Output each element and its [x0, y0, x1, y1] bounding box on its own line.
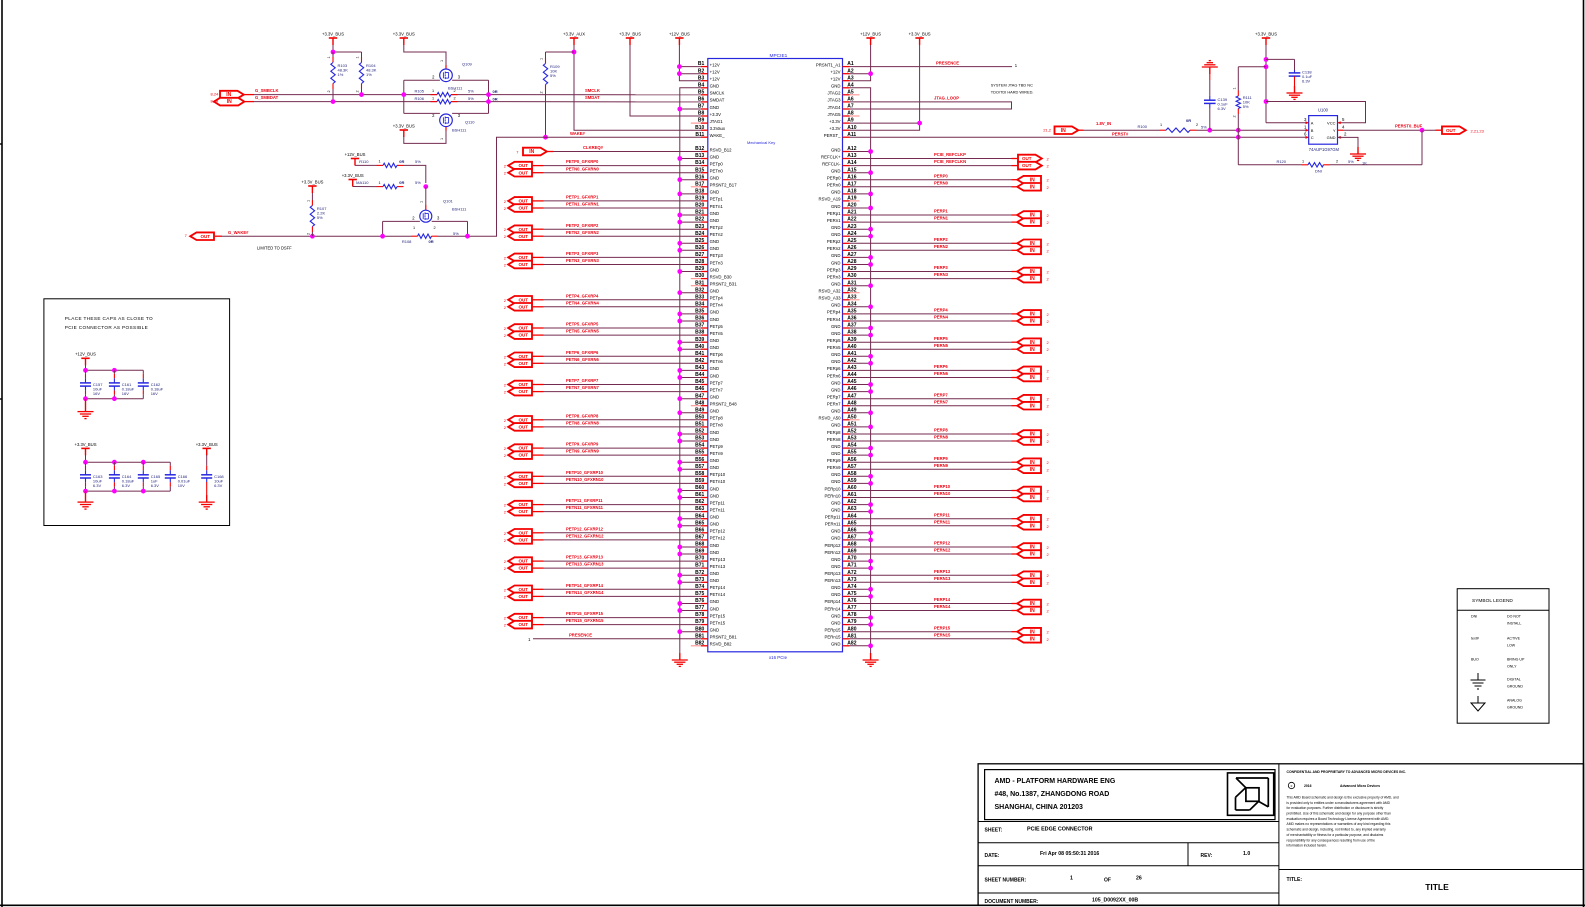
sheet border right	[1583, 0, 1585, 907]
svg-text:OUT: OUT	[518, 326, 528, 331]
svg-text:5%: 5%	[317, 215, 323, 220]
svg-text:RSVD_A33: RSVD_A33	[819, 296, 842, 301]
svg-text:PCIE_REFCLKP: PCIE_REFCLKP	[934, 152, 966, 157]
port IN PERN11	[1017, 522, 1041, 530]
svg-text:PERP0: PERP0	[934, 173, 948, 178]
svg-text:21,2: 21,2	[1043, 127, 1052, 132]
svg-text:GND: GND	[831, 324, 841, 329]
port OUT PETP4_GFXRP4	[508, 296, 532, 304]
svg-text:OUT: OUT	[518, 304, 528, 309]
svg-text:information included herein.: information included herein.	[1287, 844, 1328, 848]
svg-text:Fri Apr 08 05:50:31 2016: Fri Apr 08 05:50:31 2016	[1040, 851, 1099, 857]
pin A47 PERp7	[827, 393, 857, 399]
wire 1.8V_IN to R100	[1077, 129, 1083, 131]
svg-text:PERn0: PERn0	[827, 183, 841, 188]
pin A72 PERp13	[824, 570, 856, 576]
svg-text:OUT: OUT	[518, 615, 528, 620]
svg-text:GND: GND	[831, 282, 841, 287]
pin A79 GND	[831, 619, 857, 625]
svg-text:+3.3V_BUS: +3.3V_BUS	[393, 123, 415, 128]
svg-text:1: 1	[1233, 87, 1237, 89]
svg-text:PRSNT1_A1: PRSNT1_A1	[816, 62, 841, 67]
svg-text:PERp8: PERp8	[827, 430, 841, 435]
pin B25 GND	[695, 238, 719, 244]
pin B14 PETp0	[695, 160, 723, 166]
svg-text:GND: GND	[710, 409, 720, 414]
svg-text:VCC: VCC	[1327, 120, 1336, 125]
svg-text:JTAG1: JTAG1	[710, 119, 724, 124]
svg-text:0R: 0R	[1186, 118, 1191, 123]
ground (C138)	[1294, 86, 1296, 93]
pin A58 GND	[831, 471, 857, 477]
pin A60 PERp10	[824, 485, 856, 491]
pin B37 PETp5	[695, 323, 723, 329]
wire PCIE_REFCLKN from A14	[850, 165, 1012, 167]
svg-text:1%: 1%	[366, 72, 372, 77]
svg-text:This AMD Board schematic and d: This AMD Board schematic and design is t…	[1287, 796, 1399, 800]
svg-text:OF: OF	[1104, 878, 1111, 884]
wire flag to Q109 pin1	[404, 45, 446, 65]
legend digital ground symbol	[1477, 673, 1479, 680]
wire PETP13_GFXRP13 to B70	[533, 560, 544, 562]
pin B10 3.3Vaux	[695, 125, 726, 131]
port IN PERN10	[1017, 494, 1041, 502]
svg-text:GND: GND	[710, 317, 720, 322]
wire R104 to SMBCLK	[361, 89, 363, 95]
pin A69 PERn12	[824, 549, 856, 555]
pin B26 GND	[695, 245, 719, 251]
svg-text:IN: IN	[1030, 347, 1035, 353]
svg-text:PETP11_GFXRP11: PETP11_GFXRP11	[566, 498, 603, 503]
svg-text:OUT: OUT	[518, 587, 528, 592]
svg-text:GND: GND	[831, 642, 841, 647]
pin B30 RSVD_B30	[691, 273, 732, 279]
wire PETN3_GFXRN3 to B28	[533, 264, 544, 266]
port OUT PETP5_GFXRP5	[508, 324, 532, 332]
svg-text:PERN1: PERN1	[934, 216, 949, 221]
svg-text:PETN11_GFXRN11: PETN11_GFXRN11	[566, 505, 604, 510]
svg-text:GND: GND	[831, 472, 841, 477]
svg-text:+3.3V_BUS: +3.3V_BUS	[75, 442, 97, 447]
port OUT PETP10_GFXRP10	[508, 473, 532, 481]
wire PETP11_GFXRP11 to B62	[533, 504, 544, 506]
pin B40 GND	[695, 344, 719, 350]
pin A33 RSVD_A33	[819, 294, 860, 300]
svg-text:PRSNT2_B48: PRSNT2_B48	[710, 402, 738, 407]
svg-text:PETn15: PETn15	[710, 620, 726, 625]
svg-text:PERp6: PERp6	[827, 366, 841, 371]
pin A46 GND	[831, 386, 857, 392]
port IN CLKREQ#	[523, 148, 547, 156]
svg-text:PETN2_GFXRN2: PETN2_GFXRN2	[566, 230, 599, 235]
pin B82 RSVD_B82	[691, 640, 732, 646]
resistor R109 10K (WAKE# pullup)	[545, 58, 547, 64]
pin B62 PETp11	[695, 499, 725, 505]
svg-text:PETn5: PETn5	[710, 331, 724, 336]
junction R111/B line	[1236, 128, 1241, 133]
pin B20 PETn1	[695, 203, 723, 209]
svg-text:PETP0_GFXRP0: PETP0_GFXRP0	[566, 159, 599, 164]
wire PETP5_GFXRP5 to B37	[533, 327, 544, 329]
svg-text:PETP9_GFXRP9: PETP9_GFXRP9	[566, 442, 599, 447]
pin B47 GND	[695, 393, 719, 399]
wire R111 branch	[1237, 67, 1239, 91]
svg-text:GND: GND	[710, 458, 720, 463]
wire PRESENCE from A1	[850, 66, 1013, 68]
pin B28 PETn3	[695, 259, 723, 265]
svg-text:PERN14: PERN14	[934, 604, 951, 609]
U100 pin 6 C	[1306, 136, 1309, 139]
pin B56 GND	[695, 457, 719, 463]
svg-text:+3.3V_BUS: +3.3V_BUS	[322, 31, 344, 36]
junction gate node	[423, 184, 428, 189]
pin A19 RSVD_A19	[819, 196, 860, 202]
junction	[112, 368, 117, 373]
junction	[141, 489, 146, 494]
svg-text:5%: 5%	[415, 159, 421, 164]
port OUT PETP11_GFXRP11	[508, 501, 532, 509]
svg-text:+12V: +12V	[710, 77, 720, 82]
junction R103/SMBDAT	[331, 99, 336, 104]
svg-text:PERn9: PERn9	[827, 465, 841, 470]
svg-text:PETn2: PETn2	[710, 232, 724, 237]
svg-text:ANALOG: ANALOG	[1507, 699, 1522, 703]
svg-text:5%: 5%	[1201, 125, 1207, 130]
svg-text:PERN10: PERN10	[934, 491, 951, 496]
svg-text:R106: R106	[414, 96, 424, 101]
port IN PERN14	[1017, 607, 1041, 615]
svg-text:PERP5: PERP5	[934, 336, 948, 341]
pin B72 GND	[695, 570, 719, 576]
ground (A side bus)	[870, 653, 872, 660]
svg-text:IN: IN	[1030, 403, 1035, 409]
svg-text:GND: GND	[710, 154, 720, 159]
junction	[112, 489, 117, 494]
svg-text:G_WAKE#: G_WAKE#	[228, 230, 249, 235]
svg-text:2: 2	[327, 90, 331, 92]
svg-text:TDO/TDI HARD WIRED.: TDO/TDI HARD WIRED.	[991, 90, 1034, 95]
pin A18 GND	[831, 189, 857, 195]
svg-text:PERn5: PERn5	[827, 345, 841, 350]
svg-text:PERp2: PERp2	[827, 239, 841, 244]
pin B19 PETp1	[695, 196, 723, 202]
svg-text:PERn10: PERn10	[824, 493, 841, 498]
svg-text:1K: 1K	[1362, 160, 1367, 165]
pin B57 GND	[695, 464, 719, 470]
svg-text:REFCLK-: REFCLK-	[822, 161, 841, 166]
svg-text:PETP12_GFXRP12: PETP12_GFXRP12	[566, 526, 604, 531]
svg-text:16V: 16V	[93, 391, 100, 396]
svg-text:0R: 0R	[493, 96, 498, 101]
wire to R111	[1238, 66, 1266, 68]
pin A55 GND	[831, 450, 857, 456]
svg-text:DNI: DNI	[1471, 615, 1477, 619]
junction	[141, 460, 146, 465]
pin A45 GND	[831, 379, 857, 385]
port OUT PETN5_GFXRN5	[508, 331, 532, 339]
svg-text:OUT: OUT	[518, 502, 528, 507]
svg-text:OUT: OUT	[518, 481, 528, 486]
svg-text:PETN12_GFXRN12: PETN12_GFXRN12	[566, 534, 604, 539]
svg-text:GND: GND	[831, 169, 841, 174]
svg-text:+3.3V_BUS: +3.3V_BUS	[619, 31, 641, 36]
svg-text:ONLY: ONLY	[1507, 665, 1517, 669]
pin A22 PERn1	[827, 217, 857, 223]
wire PETN2_GFXRN2 to B24	[533, 235, 544, 237]
wire PERP10 from A60	[850, 490, 1012, 492]
wire flag to Q110 pin1	[404, 131, 446, 144]
svg-text:PERST0_BUF: PERST0_BUF	[1395, 124, 1423, 129]
pin A15 GND	[831, 167, 857, 173]
port IN PERP12	[1017, 543, 1041, 551]
svg-text:GND: GND	[710, 599, 720, 604]
svg-text:Q101: Q101	[443, 199, 454, 204]
pin A74 GND	[831, 584, 857, 590]
pin B15 PETn0	[695, 167, 723, 173]
pin B44 GND	[695, 372, 719, 378]
svg-text:PERn15: PERn15	[824, 635, 841, 640]
svg-text:GND: GND	[710, 395, 720, 400]
svg-text:IN: IN	[529, 149, 534, 155]
port IN PERN13	[1017, 579, 1041, 587]
wire PERN7 from A48	[850, 405, 1012, 407]
port OUT PETP14_GFXRP14	[508, 586, 532, 594]
svg-text:PETp1: PETp1	[710, 197, 724, 202]
wire JTAG_LOOP A6-A7	[850, 102, 1012, 109]
pin B3 +12V	[698, 75, 720, 81]
svg-text:GND: GND	[710, 239, 720, 244]
capacitor C138 0.1uF 6.3V	[1266, 58, 1295, 60]
ground (B side bus)	[679, 653, 681, 660]
wire PETN14_GFXRN14 to B75	[533, 595, 544, 597]
pin A5 JTAG2	[827, 89, 859, 95]
svg-text:PERn13: PERn13	[824, 578, 841, 583]
svg-text:IN: IN	[1030, 636, 1035, 642]
pin A64 PERp11	[825, 513, 857, 519]
svg-text:G_SMBDAT: G_SMBDAT	[255, 95, 279, 100]
svg-text:GND: GND	[831, 564, 841, 569]
port OUT PETP12_GFXRP12	[508, 529, 532, 537]
port OUT PETN0_GFXRN0	[508, 169, 532, 177]
junction SMBDAT high side	[486, 99, 491, 104]
pin A20 GND	[831, 203, 857, 209]
port OUT PETN2_GFXRN2	[508, 232, 532, 240]
port IN PERP9	[1017, 458, 1041, 466]
svg-text:PETP6_GFXRP6: PETP6_GFXRP6	[566, 350, 599, 355]
wire Q110 loop bottom	[404, 112, 440, 114]
wire PETP8_GFXRP8 to B50	[533, 419, 544, 421]
resistor R111 10K	[1237, 91, 1239, 97]
svg-text:GND: GND	[710, 437, 720, 442]
svg-text:PERN5: PERN5	[934, 343, 949, 348]
svg-text:ACTIVE: ACTIVE	[1507, 637, 1521, 641]
svg-text:1: 1	[356, 56, 360, 58]
junction R104/SMBCLK	[359, 92, 364, 97]
port OUT PETN3_GFXRN3	[508, 261, 532, 269]
pin B36 GND	[695, 316, 719, 322]
svg-text:OUT: OUT	[518, 566, 528, 571]
pin A48 PERn7	[827, 400, 857, 406]
svg-text:DO NOT: DO NOT	[1507, 615, 1522, 619]
svg-text:IN: IN	[1030, 552, 1035, 558]
port OUT PCIE_REFCLKN	[1018, 162, 1042, 170]
junction C139	[1207, 128, 1212, 133]
svg-text:+3.3V: +3.3V	[710, 112, 721, 117]
svg-text:Advanced Micro Devices: Advanced Micro Devices	[1340, 784, 1380, 788]
pin A81 PERn15	[824, 633, 856, 639]
svg-text:SMCLK: SMCLK	[585, 88, 600, 93]
svg-text:PERN0: PERN0	[934, 180, 949, 185]
svg-text:PERN13: PERN13	[934, 576, 951, 581]
pin A56 PERp9	[827, 457, 857, 463]
svg-text:RSVD_B82: RSVD_B82	[710, 642, 733, 647]
port OUT PETN11_GFXRN11	[508, 508, 532, 516]
wire PERP9 from A56	[850, 461, 1012, 463]
svg-text:5%: 5%	[415, 180, 421, 185]
pin B52 GND	[695, 429, 719, 435]
capacitor C166 0.01uF 10V	[169, 462, 171, 466]
svg-text:+12V: +12V	[710, 70, 720, 75]
ground (C168)	[206, 495, 208, 502]
svg-text:GND: GND	[831, 536, 841, 541]
pin A50 RSVD_A50	[819, 414, 860, 420]
svg-text:DOCUMENT NUMBER:: DOCUMENT NUMBER:	[985, 899, 1039, 905]
pin B9 JTAG1	[691, 118, 723, 124]
port IN PERN6	[1017, 374, 1041, 382]
svg-text:c: c	[1291, 784, 1293, 788]
wire +12V cap rail top	[85, 365, 87, 370]
pin A67 GND	[831, 535, 857, 541]
svg-text:5%: 5%	[468, 89, 474, 94]
pin B65 GND	[695, 520, 719, 526]
sheet border left	[1, 0, 3, 907]
port OUT PETN7_GFXRN7	[508, 388, 532, 396]
svg-text:PETn11: PETn11	[710, 507, 726, 512]
pin B46 PETn7	[695, 386, 723, 392]
resistor R107 2.2K	[311, 193, 313, 200]
capacitor C165 1uF 6.3V	[142, 462, 144, 466]
svg-text:PRESENCE: PRESENCE	[936, 60, 959, 65]
pin B50 PETp8	[695, 414, 723, 420]
svg-text:PERp14: PERp14	[824, 599, 841, 604]
svg-text:RSVD_B30: RSVD_B30	[710, 274, 733, 279]
wire +3.3V rail U100	[1265, 45, 1267, 123]
svg-text:PCIE CONNECTOR AS POSSIBLE: PCIE CONNECTOR AS POSSIBLE	[65, 325, 148, 330]
svg-text:R120: R120	[1276, 159, 1286, 164]
svg-text:GND: GND	[831, 507, 841, 512]
svg-text:B17: B17	[695, 181, 704, 187]
pin A44 PERn6	[827, 372, 857, 378]
svg-text:schematic and design, includin: schematic and design, including, not lim…	[1287, 828, 1387, 832]
junction +3.3V A9	[917, 121, 922, 126]
svg-text:IN: IN	[1061, 128, 1066, 134]
pin A1 PRSNT1_A1	[816, 61, 854, 67]
pin B7 GND	[698, 104, 719, 110]
AMD logo box	[1228, 773, 1274, 815]
svg-text:IN: IN	[1030, 220, 1035, 226]
port OUT PERST0_BUF	[1436, 129, 1443, 131]
pin A17 PERn0	[827, 181, 857, 187]
svg-text:REFCLK+: REFCLK+	[821, 154, 841, 159]
inverted ground (C139)	[1209, 60, 1211, 62]
svg-text:OUT: OUT	[518, 425, 528, 430]
svg-text:105_D0092XX_00B: 105_D0092XX_00B	[1092, 898, 1138, 904]
port OUT PETN12_GFXRN12	[508, 536, 532, 544]
svg-text:OUT: OUT	[518, 474, 528, 479]
svg-text:R100: R100	[1137, 124, 1147, 129]
svg-text:PERN6: PERN6	[934, 371, 949, 376]
svg-text:PETn14: PETn14	[710, 592, 726, 597]
svg-text:PETp12: PETp12	[710, 529, 726, 534]
pin B70 PETp13	[695, 556, 726, 562]
svg-text:BUO: BUO	[1471, 658, 1479, 662]
port IN PERP0	[1017, 176, 1041, 184]
svg-text:of merchantability or fitness: of merchantability or fitness for a part…	[1287, 833, 1384, 837]
svg-text:IN: IN	[1030, 467, 1035, 473]
svg-text:GND: GND	[831, 451, 841, 456]
wire Y output PERST0_BUF	[1343, 129, 1436, 131]
junction +12V A2	[868, 71, 873, 76]
wire PETN8_GFXRN8 to B51	[533, 426, 544, 428]
svg-text:U100: U100	[1318, 108, 1329, 113]
border zone tick	[0, 143, 2, 145]
svg-text:CONFIDENTIAL AND PROPRIETARY T: CONFIDENTIAL AND PROPRIETARY TO ADVANCED…	[1287, 770, 1407, 774]
wire PERN0 from A17	[850, 186, 1012, 188]
pin A34 GND	[831, 301, 857, 307]
svg-text:PETn8: PETn8	[710, 423, 724, 428]
pin A71 GND	[831, 563, 857, 569]
svg-text:GND: GND	[710, 543, 720, 548]
svg-text:GND: GND	[710, 606, 720, 611]
port OUT PETP7_GFXRP7	[508, 381, 532, 389]
svg-text:2: 2	[307, 233, 311, 235]
junction Q101 output	[465, 234, 470, 239]
junction	[83, 489, 88, 494]
junction R120/PERST line	[1236, 135, 1241, 140]
svg-text:+12V_BUS: +12V_BUS	[669, 31, 690, 36]
pin B48 PRSNT2_B48	[691, 400, 737, 406]
svg-text:2: 2	[1196, 123, 1198, 127]
svg-text:GND: GND	[710, 246, 720, 251]
pin B73 GND	[695, 577, 719, 583]
port OUT PETP13_GFXRP13	[508, 557, 532, 565]
svg-text:PCIE EDGE CONNECTOR: PCIE EDGE CONNECTOR	[1027, 827, 1093, 833]
junction	[83, 460, 88, 465]
svg-text:PERn6: PERn6	[827, 373, 841, 378]
svg-text:Q110: Q110	[465, 120, 475, 125]
wire GND bus A side	[850, 88, 871, 653]
pin A65 PERn11	[825, 520, 857, 526]
svg-text:1: 1	[440, 138, 444, 140]
svg-text:OUT: OUT	[200, 234, 210, 239]
svg-text:is provided only to entities u: is provided only to entities under a man…	[1287, 801, 1391, 805]
svg-text:A5: A5	[847, 89, 854, 95]
pin B4 GND	[698, 82, 719, 88]
svg-text:OUT: OUT	[518, 538, 528, 543]
svg-text:B82: B82	[695, 640, 704, 646]
junction	[112, 460, 117, 465]
svg-text:GND: GND	[710, 522, 720, 527]
svg-text:PETp2: PETp2	[710, 225, 724, 230]
svg-text:IN: IN	[1030, 248, 1035, 254]
svg-text:6.3V: 6.3V	[93, 483, 102, 488]
wire PETN11_GFXRN11 to B63	[533, 511, 544, 513]
U100 pin 2 GND	[1338, 136, 1341, 139]
svg-text:C: C	[1311, 135, 1314, 140]
svg-text:OUT: OUT	[518, 530, 528, 535]
svg-text:PERP1: PERP1	[934, 209, 948, 214]
pin A37 GND	[831, 323, 857, 329]
